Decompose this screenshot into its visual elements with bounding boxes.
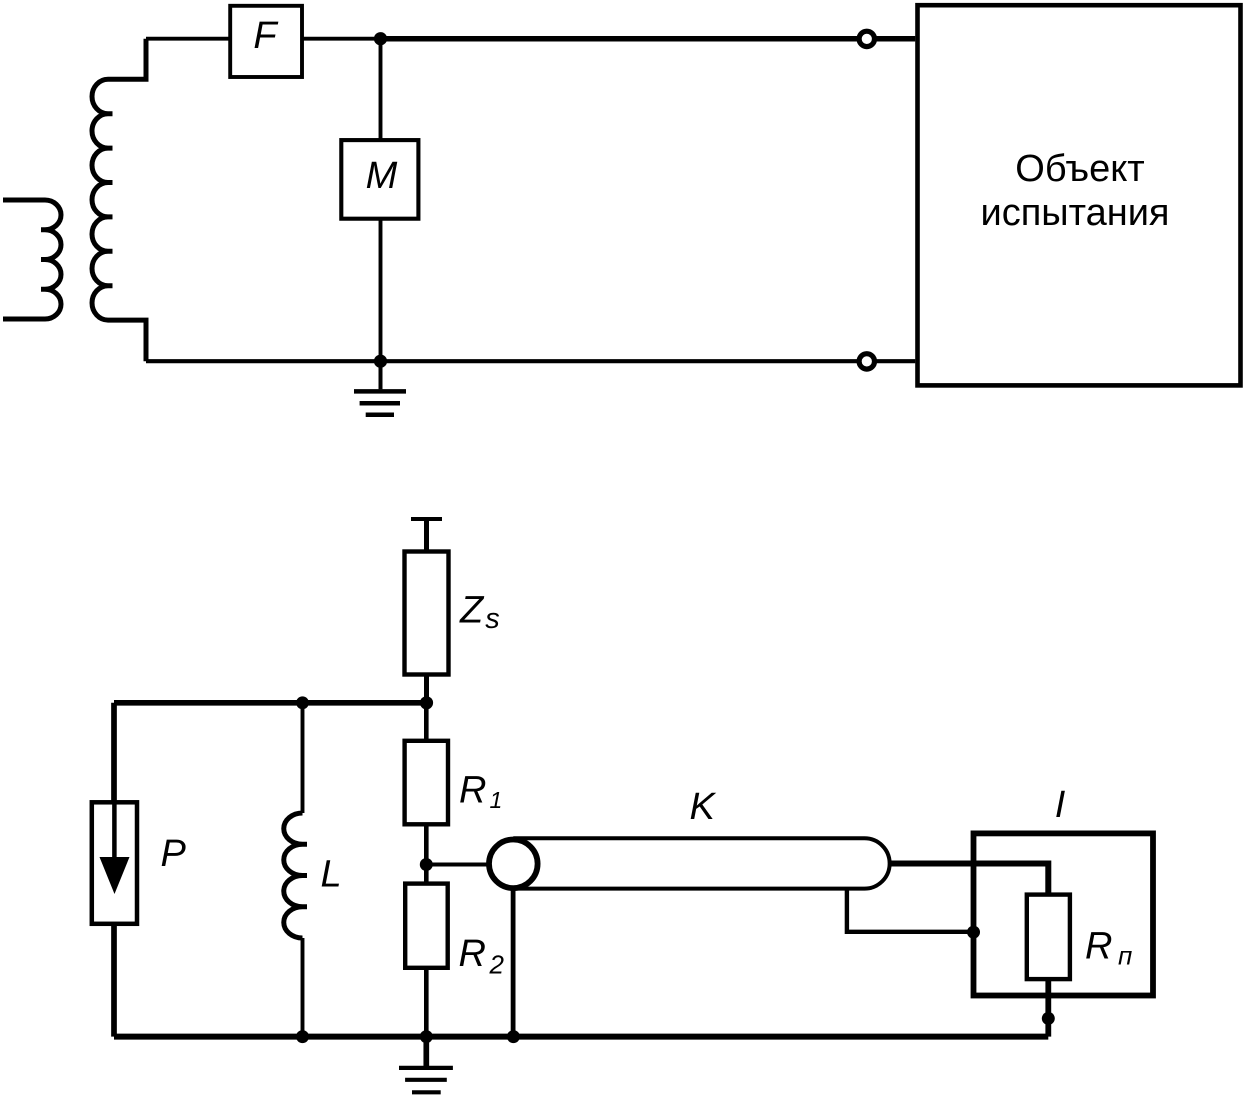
- svg-text:M: M: [366, 155, 398, 197]
- svg-text:K: K: [690, 786, 717, 828]
- svg-text:L: L: [321, 854, 342, 896]
- svg-text:F: F: [253, 15, 278, 57]
- svg-text:P: P: [161, 833, 187, 875]
- svg-text:Объект: Объект: [1015, 148, 1144, 190]
- svg-text:I: I: [1055, 784, 1066, 826]
- svg-text:испытания: испытания: [980, 192, 1169, 234]
